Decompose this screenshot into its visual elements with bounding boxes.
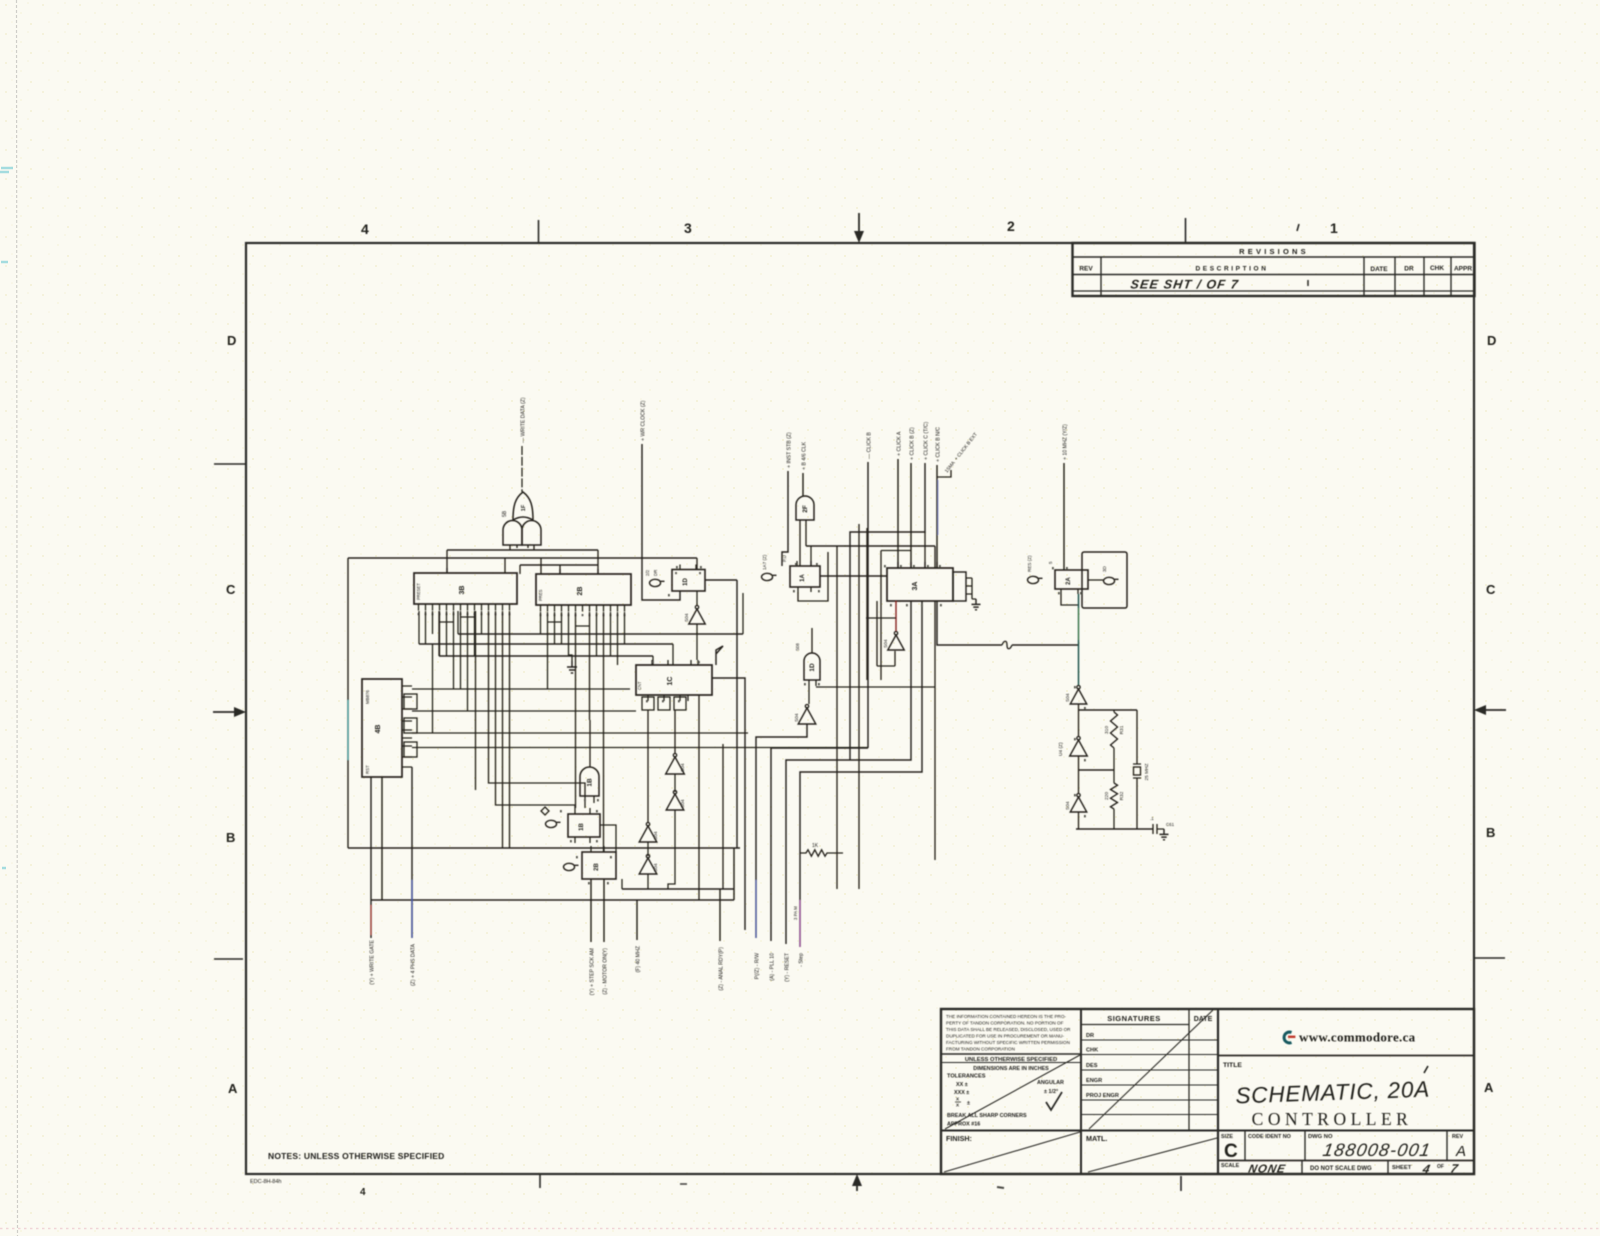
- wire bus y634 left drop: [457, 611, 459, 634]
- svg-text:C: C: [1486, 582, 1496, 597]
- svg-text:3B: 3B: [459, 586, 466, 595]
- svg-text:25 MHZ: 25 MHZ: [1144, 763, 1150, 780]
- diagonal slash through tolerance box: [945, 1055, 1080, 1129]
- wire y546 drop to 3A: [934, 546, 936, 568]
- wire U2B bottom pin 1: [590, 879, 592, 942]
- svg-text:+ CLICK B (Z): + CLICK B (Z): [910, 427, 916, 460]
- inverter S04 chain1 a: [666, 754, 686, 775]
- description column line: [1363, 257, 1365, 296]
- ic U1C counter: [636, 665, 712, 695]
- svg-text:FROM TANDON CORPORATION: FROM TANDON CORPORATION: [946, 1047, 1015, 1052]
- zone tick left B/A: [214, 958, 243, 960]
- svg-text:3A: 3A: [912, 582, 919, 591]
- wire bus y550: [447, 549, 598, 551]
- wire gate1D bus y687: [816, 686, 935, 688]
- svg-text:C: C: [226, 582, 236, 597]
- zone tick left D/C: [214, 463, 246, 465]
- wire WRITE DATA vertical: [521, 446, 523, 492]
- svg-text:P.U: P.U: [782, 555, 787, 562]
- wire CLICK B vertical: [867, 462, 869, 748]
- svg-text:www.commodore.ca: www.commodore.ca: [1299, 1030, 1416, 1045]
- flag symbol top right of U1C: [716, 646, 723, 665]
- svg-text:PERTY OF TANDON CORPORATION. N: PERTY OF TANDON CORPORATION. NO PORTION …: [946, 1021, 1064, 1026]
- wire bus drop x447: [446, 550, 448, 573]
- ic U1D top pin stubs: [680, 565, 696, 570]
- svg-text:+ 10 MHZ (Y/Z): + 10 MHZ (Y/Z): [1063, 424, 1069, 460]
- tolerance box bottom line: [941, 1130, 1474, 1132]
- outer boundary box bottom: [348, 847, 740, 849]
- wire bus drop x505: [504, 558, 506, 573]
- ground under U2B: [567, 661, 577, 673]
- ic U2B top pin stubs: [560, 569, 598, 574]
- wire 4B out y747: [412, 747, 868, 749]
- svg-text:S04: S04: [680, 799, 686, 808]
- inverter osc 3: [1065, 794, 1087, 813]
- resistor R 1K horizontal: [800, 843, 843, 856]
- rev cell line: [1446, 1131, 1448, 1161]
- wire CLICK B EXT elbow: [937, 470, 951, 477]
- svg-text:DIMENSIONS ARE IN INCHES: DIMENSIONS ARE IN INCHES: [973, 1066, 1049, 1072]
- wire osc inv1-inv2: [1078, 710, 1080, 737]
- wire U1D output to x737: [705, 579, 737, 581]
- wire CLICK C vertical: [850, 463, 925, 760]
- date column line: [1188, 1009, 1190, 1131]
- zone tick top between 4 and 3: [538, 220, 540, 243]
- centering arrow right: [1474, 705, 1506, 715]
- svg-text:THIS DATA SHALL BE RELEASED, D: THIS DATA SHALL BE RELEASED, DISCLOSED, …: [946, 1027, 1071, 1032]
- wire 10 MHZ vertical: [1063, 463, 1065, 570]
- signature row line 4: [1081, 1084, 1218, 1086]
- svg-text:3 PA M: 3 PA M: [793, 906, 798, 920]
- svg-text:ENGR: ENGR: [1086, 1078, 1102, 1084]
- checkmark: [1046, 1092, 1062, 1110]
- svg-text:S04: S04: [1065, 801, 1071, 810]
- wire U1C pin long drop: [698, 695, 700, 900]
- svg-text:188008-001: 188008-001: [1321, 1140, 1433, 1160]
- connector bubble into U2A: [1028, 576, 1043, 583]
- wire bus y565: [520, 564, 598, 566]
- inverter below U1D: [684, 606, 705, 625]
- svg-text:DR: DR: [1404, 266, 1414, 273]
- svg-text:C: C: [1224, 1141, 1238, 1162]
- wire chain1 b down: [668, 810, 675, 889]
- svg-text:S04: S04: [794, 713, 800, 722]
- ic U1D flip-flop: [672, 570, 705, 592]
- svg-text:DUPLICATED FOR USE IN PROCUREM: DUPLICATED FOR USE IN PROCUREMENT OR MAN…: [946, 1034, 1064, 1039]
- svg-text:+ WR CLOCK (Z): + WR CLOCK (Z): [641, 400, 647, 441]
- wire 2B pin to gnd: [569, 612, 573, 661]
- flip-flop U2B top stubs: [591, 846, 604, 852]
- wire 4B out y689: [412, 688, 630, 690]
- svg-text:CONTROLLER: CONTROLLER: [1252, 1109, 1413, 1129]
- and-gate U2F: [796, 496, 814, 520]
- flip-flop U1B bottom stubs: [575, 837, 590, 843]
- wire 3B pin drops short: [426, 611, 482, 656]
- wire 4B bottom pin B: [381, 777, 383, 900]
- drawing border frame: [246, 243, 1474, 1174]
- wire 2B pin to gate1B: [589, 612, 591, 720]
- ic U4B pin loop box 3: [404, 742, 417, 757]
- wire bus drop x520: [519, 565, 521, 574]
- svg-text:APPR: APPR: [1454, 266, 1472, 273]
- wire bottom rail y889: [622, 888, 734, 890]
- svg-text:S04: S04: [653, 831, 659, 840]
- svg-text:CHK: CHK: [1086, 1048, 1098, 1054]
- svg-text:+ CLICK C (T/C): + CLICK C (T/C): [924, 422, 930, 460]
- wire 2B pin drop x596: [596, 612, 598, 644]
- wire 3A pin C stub: [924, 532, 926, 568]
- stray dash bottom 2: [997, 1187, 1004, 1188]
- svg-text:3D: 3D: [1102, 565, 1107, 572]
- wire break squiggle: [1002, 641, 1012, 649]
- svg-text:DO NOT SCALE DWG: DO NOT SCALE DWG: [1310, 1166, 1372, 1172]
- svg-text:2A: 2A: [1066, 576, 1072, 584]
- svg-text:FINISH:: FINISH:: [946, 1134, 972, 1143]
- ic U4B right pin stubs: [402, 686, 412, 767]
- wire U2A down to osc: [1078, 594, 1080, 645]
- wire B 4/6 CLK vertical: [802, 473, 804, 496]
- wire bus y656: [439, 655, 653, 657]
- svg-text:REVISIONS: REVISIONS: [1239, 247, 1309, 256]
- wire stair net 3: [786, 601, 911, 944]
- wire R32 bottom: [1113, 809, 1115, 829]
- wire U3A pin drop red: [895, 601, 897, 631]
- svg-text:2: 2: [1007, 218, 1015, 234]
- wire 3B pin long vertical 1: [489, 611, 586, 796]
- zone tick top between 2 and 1: [1185, 218, 1187, 243]
- svg-text:— CLICK B: — CLICK B: [867, 432, 873, 459]
- wire 3B pin long vertical 3: [502, 611, 504, 848]
- wire extra vertical x859: [858, 524, 860, 889]
- svg-text:310: 310: [1104, 726, 1110, 734]
- wire R31 bottom: [1113, 748, 1115, 770]
- wire osc inv3 out: [1078, 812, 1080, 829]
- inverter S04 chain2 a: [639, 823, 659, 843]
- svg-text:1A7 (Z): 1A7 (Z): [762, 554, 767, 570]
- wire bus y656 left drop: [438, 611, 440, 656]
- svg-text:MB8?6: MB8?6: [365, 690, 370, 704]
- svg-text:DR: DR: [653, 570, 658, 576]
- svg-text:+ INST STB (Z): + INST STB (Z): [787, 432, 793, 468]
- diagonal slash through signatures: [1089, 1010, 1213, 1129]
- svg-text:R32: R32: [1119, 791, 1125, 800]
- wire CLICK B N/C vertical: [936, 465, 938, 568]
- wire extra vertical x867: [866, 528, 868, 680]
- wire pin elbow band: [440, 617, 625, 656]
- wire x837 long vertical: [836, 546, 838, 889]
- flip-flop U1B top stubs: [575, 808, 590, 814]
- wire chain2 a-b: [647, 842, 649, 856]
- and-gate left of write-data pair: [503, 521, 522, 546]
- stray tick in description row: [1307, 280, 1309, 286]
- and-gate U1Db: [804, 653, 820, 680]
- svg-text:1: 1: [1330, 220, 1338, 236]
- ground right of U3A: [972, 599, 981, 610]
- wire R31 top: [1113, 710, 1115, 712]
- svg-text:(Z) - ANAL RDY(P): (Z) - ANAL RDY(P): [719, 947, 725, 991]
- ic U3A right sub box: [953, 572, 966, 601]
- ic U3A sub box pins: [966, 578, 976, 599]
- svg-text:DATE: DATE: [1194, 1016, 1213, 1023]
- svg-text:TITLE: TITLE: [1223, 1062, 1242, 1069]
- wire INST STB vertical: [782, 471, 788, 566]
- diagonal slash through matl box: [1088, 1138, 1217, 1172]
- svg-text:±: ±: [967, 1101, 970, 1107]
- pin number specks: [560, 563, 1086, 884]
- revisions row divider: [1073, 290, 1475, 292]
- and-gate U1B: [580, 767, 599, 796]
- svg-text:(Z) - MOTOR ON(Y): (Z) - MOTOR ON(Y): [603, 948, 609, 995]
- inverter mid S04: [794, 705, 816, 725]
- svg-text:1A: 1A: [800, 573, 806, 581]
- wire bus drop x560: [559, 565, 561, 574]
- wire U3A loop left: [877, 601, 895, 666]
- svg-text:S04: S04: [883, 639, 889, 648]
- wire bus drop x697: [696, 558, 698, 569]
- svg-text:2F: 2F: [802, 505, 809, 513]
- wire osc bottom rail: [1076, 828, 1153, 830]
- wire 2B pin drops short: [541, 612, 625, 656]
- wire ANAL RDY drop: [719, 889, 721, 941]
- wire osc inv2-inv3: [1078, 770, 1080, 794]
- svg-text:4: 4: [360, 1187, 366, 1198]
- wire CLICK B (Z) vertical: [910, 463, 912, 568]
- svg-text:1D: 1D: [683, 577, 689, 585]
- legal paragraph text: [946, 1014, 1071, 1052]
- svg-text:B: B: [1486, 825, 1495, 840]
- wire R32 top: [1113, 770, 1115, 783]
- color fringe green x1078: [1078, 608, 1080, 640]
- svg-text:(Y) + STEP SCK AM: (Y) + STEP SCK AM: [590, 948, 596, 995]
- flip-flop U2B: [582, 852, 616, 879]
- zone tick bottom 4/3: [539, 1174, 541, 1188]
- ic U3B top pin stub: [446, 568, 448, 573]
- wire U1B inputs down: [585, 796, 594, 808]
- wire U2A bottom loop: [1061, 594, 1079, 605]
- zone tick right B/A: [1474, 957, 1505, 959]
- svg-text:TOLERANCES: TOLERANCES: [947, 1074, 986, 1080]
- ic U2B bottom pin stubs: [541, 605, 625, 612]
- diagonal slash through finish box: [944, 1132, 1080, 1172]
- wire bus y644: [419, 643, 673, 645]
- ic U3B pin numbers: [418, 613, 511, 615]
- wire 4B right pin down: [411, 767, 413, 938]
- svg-text:1K: 1K: [812, 843, 819, 849]
- svg-text:S04: S04: [684, 613, 690, 622]
- scale cell line: [1301, 1161, 1303, 1175]
- wire stair net 4: [800, 601, 922, 947]
- svg-text:4: 4: [361, 221, 369, 237]
- ic U2B pin numbers: [540, 614, 626, 616]
- ic U1D pin numbers: [675, 572, 701, 574]
- ic U1C bottom pin stubs: [648, 695, 688, 701]
- wire stair net 1: [756, 724, 807, 938]
- outer boundary box left: [347, 558, 349, 848]
- svg-text:1C: 1C: [667, 677, 674, 686]
- svg-text:S04: S04: [653, 863, 659, 872]
- wire 3B pin long vertical 4: [509, 611, 511, 848]
- svg-text:REV: REV: [1079, 266, 1093, 273]
- svg-text:(F) 40 MHZ: (F) 40 MHZ: [636, 946, 642, 973]
- resistor R31 310: [1104, 712, 1125, 748]
- connector bubble into U2B: [564, 863, 579, 870]
- legal box bottom line: [941, 1053, 1081, 1055]
- svg-text:DESCRIPTION: DESCRIPTION: [1195, 266, 1268, 273]
- svg-text:1D: 1D: [809, 663, 816, 672]
- svg-text:FACTURING WITHOUT SPECIFIC WRI: FACTURING WITHOUT SPECIFIC WRITTEN PERMI…: [946, 1040, 1070, 1045]
- ic U3B bottom pin stubs: [419, 604, 510, 611]
- ic U4B pin loop box 2: [404, 718, 417, 733]
- svg-text:(Y) - RESET: (Y) - RESET: [785, 952, 791, 982]
- wire U1Db output up: [811, 628, 813, 653]
- svg-text:P(/Z) - R/W: P(/Z) - R/W: [755, 953, 761, 979]
- wire x723 drop: [722, 744, 724, 889]
- resistor R32 220: [1104, 783, 1125, 809]
- wire osc rail y710: [1079, 709, 1138, 711]
- signature row line 2: [1081, 1054, 1218, 1056]
- scan artifact: pink dotted line near bottom: [0, 1228, 1600, 1230]
- wire bus y558: [348, 557, 697, 559]
- middle/right column divider: [1217, 1009, 1219, 1174]
- scan artifact: faint gray vertical line left edge: [17, 0, 18, 1236]
- svg-text:CODE IDENT NO: CODE IDENT NO: [1248, 1134, 1291, 1140]
- svg-text:S04: S04: [1065, 693, 1071, 702]
- wire jog y550: [881, 550, 911, 552]
- wire and outputs into or gate: [510, 545, 534, 550]
- signature row line 6: [1081, 1114, 1218, 1116]
- dr column line: [1423, 257, 1425, 296]
- color fringe blue on R/W: [755, 880, 757, 938]
- flip-flop U1A top stubs: [797, 561, 811, 566]
- svg-text:REV: REV: [1452, 1134, 1463, 1140]
- chk column line: [1450, 257, 1452, 296]
- svg-text:NONE: NONE: [1247, 1163, 1287, 1176]
- inverter under U3A: [883, 632, 904, 651]
- wire 3B pin long vertical 2: [496, 611, 576, 808]
- color fringe blue on N/C: [937, 480, 939, 535]
- stray dash bottom: [680, 1183, 687, 1185]
- svg-text:RST: RST: [365, 765, 370, 774]
- wire WR CLOCK vertical: [642, 444, 680, 600]
- svg-text:(Z) + 4 PHS DATA: (Z) + 4 PHS DATA: [411, 943, 417, 986]
- size row bottom line: [1218, 1160, 1474, 1162]
- connector bubble into U1B: [546, 820, 561, 827]
- svg-text:3: 3: [684, 220, 692, 236]
- svg-text:SHEET: SHEET: [1392, 1165, 1412, 1171]
- ic U3B shift register: [414, 573, 517, 604]
- wire bus y656 right to 1C: [652, 656, 654, 665]
- wire x935 drop: [934, 601, 936, 860]
- capacitor C61: [1150, 816, 1175, 834]
- title block outer border: [941, 1009, 1474, 1174]
- ic U3A decoder: [887, 568, 953, 601]
- svg-text:— WRITE DATA (Z): — WRITE DATA (Z): [521, 397, 527, 443]
- diamond PU marker at U1B: [541, 807, 549, 815]
- wire U2B bottom pin 2: [603, 879, 605, 942]
- wire 4B out y711: [412, 710, 636, 712]
- date column line: [1394, 257, 1396, 296]
- connector bubble into U1A: [762, 573, 777, 580]
- connector bubble into U1D: [650, 579, 665, 586]
- svg-text:DR: DR: [1086, 1033, 1094, 1039]
- wire U3A pin to y645: [937, 601, 1002, 645]
- svg-text:CNT: CNT: [637, 681, 642, 690]
- accent over A: [1424, 1066, 1428, 1073]
- svg-text:C61: C61: [1166, 822, 1175, 827]
- ic U1C bottom pin loop 1: [642, 697, 654, 710]
- svg-text:ANGULAR: ANGULAR: [1037, 1080, 1064, 1086]
- wire osc inv2 out: [1078, 756, 1080, 770]
- wire CLICK A vertical: [897, 459, 899, 568]
- wire osc junction down: [1078, 645, 1080, 686]
- wire U1C out to inv chain A: [647, 710, 649, 823]
- left/middle column divider: [1080, 1009, 1082, 1174]
- revisions header divider: [1073, 256, 1475, 258]
- ground at C61: [1160, 829, 1169, 840]
- svg-text:DATE: DATE: [1370, 266, 1388, 273]
- svg-text:± 1/2°: ± 1/2°: [1044, 1089, 1058, 1095]
- ic U1C bottom pin loop 2: [658, 697, 670, 710]
- svg-text:PROJ ENGR: PROJ ENGR: [1086, 1093, 1119, 1099]
- svg-text:R31: R31: [1119, 725, 1125, 734]
- wire osc inv1 out: [1078, 704, 1080, 710]
- wire y645 to oscillator: [1012, 644, 1079, 646]
- svg-text:BREAK ALL SHARP CORNERS: BREAK ALL SHARP CORNERS: [947, 1113, 1027, 1119]
- svg-text:2B: 2B: [594, 862, 600, 870]
- wire U1B output up: [589, 720, 591, 767]
- wire inverter input down to 1C: [696, 624, 698, 660]
- svg-text:SEE SHT / OF 7: SEE SHT / OF 7: [1130, 278, 1240, 292]
- crystal Y1 25 MHZ: [1133, 710, 1150, 829]
- svg-text:SCALE: SCALE: [1221, 1163, 1240, 1169]
- svg-text:- Step: - Step: [799, 953, 805, 967]
- wire 3B pin long vertical 3b: [475, 611, 477, 790]
- svg-text:XX ±: XX ±: [956, 1082, 968, 1088]
- svg-text:+ B 4/6 CLK: + B 4/6 CLK: [802, 441, 808, 470]
- svg-text:DES: DES: [1086, 1063, 1098, 1069]
- signature row line 5: [1081, 1099, 1218, 1101]
- centering arrow top: [854, 213, 864, 243]
- wire U2F output stubs: [800, 520, 806, 566]
- wire U1Db inputs down: [809, 680, 816, 704]
- svg-text:+ CLICK B N/C: + CLICK B N/C: [936, 427, 942, 462]
- svg-text:U4 (Z): U4 (Z): [1058, 742, 1064, 756]
- svg-text:XXX ±: XXX ±: [954, 1090, 969, 1096]
- svg-text:5: 5: [1048, 561, 1053, 564]
- svg-text:(Y) + WRITE GATE: (Y) + WRITE GATE: [370, 939, 376, 984]
- svg-text:OF: OF: [1437, 1164, 1444, 1170]
- wire U1C out to inv chain B: [674, 710, 676, 754]
- svg-text:SIGNATURES: SIGNATURES: [1107, 1014, 1161, 1023]
- svg-text:S04: S04: [680, 763, 686, 772]
- unless-otherwise heading underline: [941, 1062, 1081, 1064]
- wire rail join x622: [621, 879, 623, 889]
- or-gate U1F write data: [513, 492, 533, 520]
- ic U1C top pin stubs: [652, 660, 698, 665]
- wire 4B bottom pin A: [370, 777, 372, 938]
- wire chain1 a-b: [674, 774, 676, 792]
- code ident cell line: [1304, 1131, 1306, 1161]
- svg-text:EDC-8H-84h: EDC-8H-84h: [250, 1179, 281, 1185]
- svg-text:2/2: 2/2: [645, 569, 650, 576]
- svg-text:D: D: [1487, 333, 1496, 348]
- svg-text:CHK: CHK: [1430, 265, 1444, 272]
- box 3D around U2A: [1082, 552, 1127, 608]
- flip-flop U2A: [1055, 570, 1088, 589]
- wire U2A out stub: [1088, 579, 1103, 581]
- wire U1A output right: [820, 575, 887, 577]
- revisions column header divider: [1073, 274, 1475, 276]
